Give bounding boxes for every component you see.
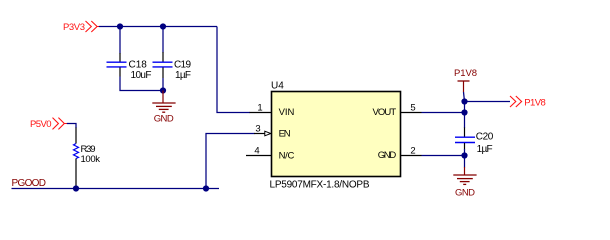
power symbol P1V8: [454, 68, 477, 92]
pin 3 EN: [254, 124, 291, 140]
net port P5V0: [30, 118, 67, 130]
wire P3V3 horizontal: [99, 26, 217, 28]
wire right vertical: [464, 102, 466, 129]
svg-text:U4: U4: [271, 81, 284, 92]
svg-text:P3V3: P3V3: [63, 22, 85, 33]
svg-text:1µF: 1µF: [175, 70, 191, 81]
svg-text:N/C: N/C: [279, 150, 295, 161]
wire GND pin to node: [422, 155, 466, 157]
svg-text:1µF: 1µF: [477, 144, 493, 155]
junction ground node: [160, 87, 166, 93]
svg-text:C20: C20: [476, 132, 494, 143]
capacitor C18: [107, 53, 152, 81]
svg-text:GND: GND: [378, 150, 397, 161]
svg-text:1: 1: [257, 103, 262, 114]
wire VOUT to node: [422, 112, 466, 114]
ground under C19: [152, 91, 175, 125]
wire node to off-page P1V8: [465, 101, 511, 103]
wire junction to C18: [119, 27, 121, 54]
svg-text:PGOOD: PGOOD: [12, 178, 47, 189]
junction PGOOD-R39: [73, 185, 79, 191]
pin 1 VIN: [250, 103, 295, 118]
junction at C18 tap: [117, 23, 123, 29]
wire junction to C19: [162, 27, 164, 53]
junction at C19 tap: [160, 23, 166, 29]
svg-text:2: 2: [410, 145, 415, 156]
wire PGOOD to EN: [206, 134, 255, 189]
IC U4 LP5907MFX-1.8/NOPB body: [270, 81, 401, 191]
wire power to node: [464, 92, 465, 102]
wire P3V3 down to VIN: [217, 27, 250, 113]
capacitor C19: [153, 52, 192, 81]
pin 5 VOUT: [373, 103, 422, 118]
wire C20 to GND row: [464, 149, 466, 168]
svg-text:GND: GND: [154, 114, 174, 125]
wire PGOOD: [12, 188, 220, 190]
wire R39 to PGOOD: [75, 186, 77, 189]
wire C19 bottom: [162, 78, 164, 91]
svg-text:C19: C19: [174, 60, 191, 71]
wire P5V0 to R39: [67, 124, 76, 129]
svg-text:4: 4: [254, 145, 259, 156]
pin 2 GND: [378, 145, 422, 160]
svg-text:100k: 100k: [81, 154, 101, 165]
svg-text:5: 5: [410, 103, 415, 114]
svg-text:EN: EN: [279, 129, 291, 140]
svg-text:10uF: 10uF: [131, 70, 152, 81]
svg-text:GND: GND: [455, 188, 475, 199]
svg-text:P1V8: P1V8: [454, 68, 477, 79]
svg-text:C18: C18: [129, 60, 148, 71]
svg-text:VOUT: VOUT: [373, 107, 397, 118]
capacitor C20: [455, 128, 494, 156]
resistor R39: [74, 128, 101, 187]
svg-text:P1V8: P1V8: [524, 97, 546, 108]
junction GND row: [461, 152, 467, 158]
junction PGOOD-EN: [203, 185, 209, 191]
ground under C20: [453, 167, 476, 199]
svg-text:VIN: VIN: [279, 107, 295, 118]
svg-text:3: 3: [255, 124, 260, 135]
wire C18 bottom to ground node: [120, 77, 163, 91]
junction P1V8 tap: [461, 98, 467, 104]
junction VOUT row: [461, 109, 467, 115]
svg-text:P5V0: P5V0: [30, 119, 52, 130]
net port P1V8: [510, 96, 546, 108]
svg-text:LP5907MFX-1.8/NOPB: LP5907MFX-1.8/NOPB: [270, 180, 370, 191]
pin 4 N/C: [246, 145, 295, 161]
net port P3V3: [63, 21, 99, 33]
